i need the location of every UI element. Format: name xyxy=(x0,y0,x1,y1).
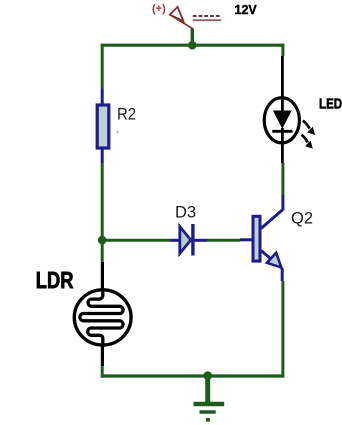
wire diode cathode navy xyxy=(193,239,207,242)
wire collector navy vertical xyxy=(281,195,284,210)
transistor Q2 collector diagonal xyxy=(261,210,283,229)
wire emitter navy vertical xyxy=(281,268,284,281)
artifact mark under R2 xyxy=(116,131,118,134)
svg-text:LDR: LDR xyxy=(36,268,74,294)
LDR body circle xyxy=(74,290,131,345)
wire left green mid xyxy=(101,163,104,262)
transistor Q2 emitter diagonal xyxy=(261,251,282,269)
LED light arrow 1 xyxy=(303,121,310,129)
junction node left (base tap) xyxy=(98,236,107,245)
power flag triangle xyxy=(170,7,184,21)
diode D3 triangle xyxy=(180,227,191,254)
ground bar 1 xyxy=(194,402,225,406)
LED body circle xyxy=(264,98,299,143)
ground bar 3 xyxy=(206,418,210,422)
LDR serpentine element xyxy=(80,290,123,348)
wire left navy below R2 xyxy=(101,148,104,163)
wire base navy xyxy=(240,238,253,241)
wire LED anode black xyxy=(281,56,284,111)
diode D3 cathode bar xyxy=(191,224,194,256)
wire right green bottom xyxy=(281,281,284,378)
svg-text:R2: R2 xyxy=(117,106,136,124)
LED light arrow 2 xyxy=(302,135,308,143)
wire supply stub green xyxy=(191,29,194,46)
resistor R2 xyxy=(97,105,109,148)
junction node top (supply tap) xyxy=(188,41,197,50)
svg-text:LED: LED xyxy=(319,95,342,112)
wire right green top xyxy=(281,44,284,56)
wire left black into LDR xyxy=(101,262,104,291)
wire top rail xyxy=(101,44,284,47)
wire LED cathode black xyxy=(281,128,284,163)
junction node bottom (ground tap) xyxy=(203,371,212,380)
wire bottom rail xyxy=(101,374,284,377)
power solid line xyxy=(193,19,222,21)
power dashed line xyxy=(193,15,220,17)
power flag pole xyxy=(170,15,193,29)
wire left navy to R2 xyxy=(101,89,104,106)
LED cathode bar xyxy=(272,130,292,133)
svg-text:12V: 12V xyxy=(235,3,258,17)
wire right green above collector xyxy=(281,163,284,195)
ground bar 2 xyxy=(200,410,216,413)
svg-text:(+): (+) xyxy=(152,3,166,15)
wire left green bottom corner xyxy=(101,366,104,378)
svg-text:D3: D3 xyxy=(175,204,196,222)
wire left green upper xyxy=(101,44,104,89)
svg-text:Q2: Q2 xyxy=(291,209,313,227)
wire diode anode navy xyxy=(171,239,180,242)
wire left black below LDR xyxy=(101,345,104,366)
wire middle green from junction xyxy=(102,239,170,242)
transistor Q2 bar xyxy=(253,216,260,261)
ground stem xyxy=(205,376,210,403)
wire middle green to base xyxy=(207,239,240,242)
LED triangle xyxy=(273,111,292,129)
transistor Q2 emitter arrowhead xyxy=(267,253,281,268)
